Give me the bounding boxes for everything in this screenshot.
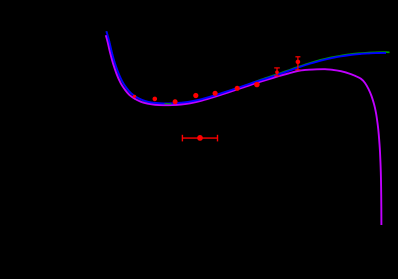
data point P3 (173, 99, 178, 104)
lone data point horizontal error bar (182, 135, 217, 142)
data point P2 (153, 97, 158, 102)
data point P8 error bar (274, 68, 280, 76)
blue fit curve (106, 31, 386, 103)
data point P5 (213, 91, 218, 96)
data point P7 (254, 82, 260, 88)
green fit curve (106, 31, 389, 104)
data point P4 (193, 93, 198, 98)
lone data point marker (197, 135, 203, 141)
data point P9 marker (296, 60, 301, 65)
data point P8 marker (275, 70, 279, 74)
magenta fit curve (106, 35, 382, 225)
data point P1 (133, 95, 136, 98)
green curve sliver at minimum (165, 103, 172, 105)
data point P6 (235, 86, 240, 91)
data point P9 error bar (295, 57, 300, 70)
